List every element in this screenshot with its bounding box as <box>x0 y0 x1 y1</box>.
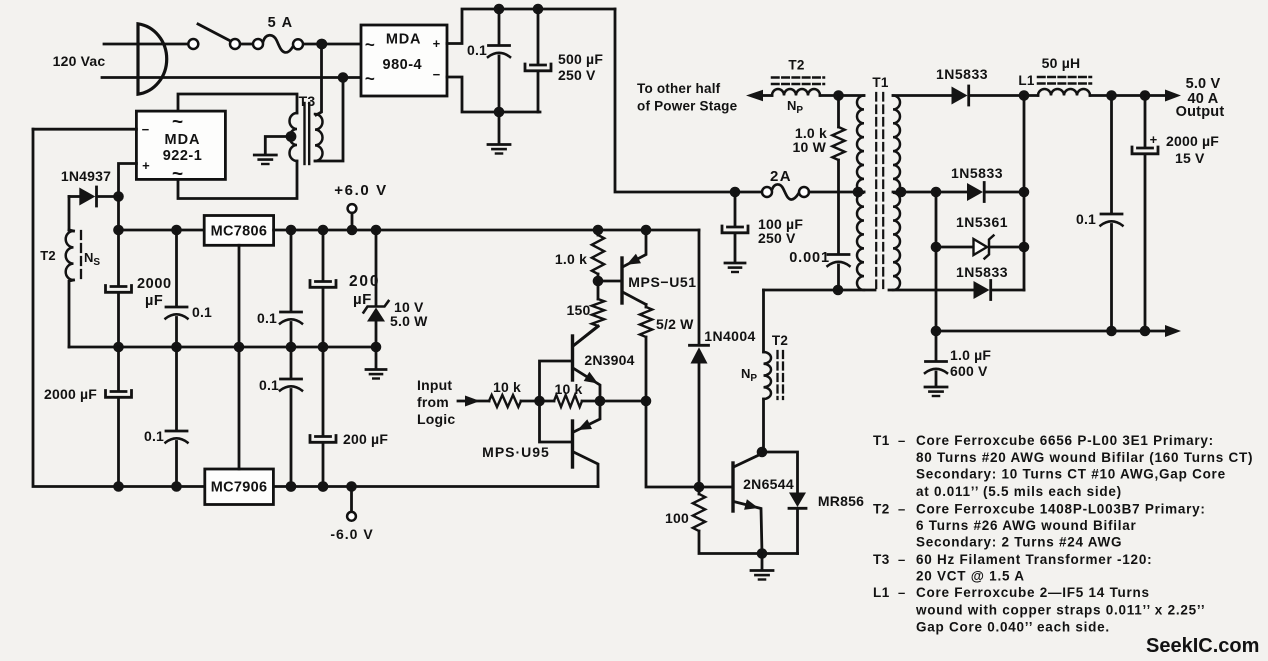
wire <box>761 554 764 570</box>
wire <box>99 195 119 198</box>
svg-text:10 k: 10 k <box>554 381 582 397</box>
junction <box>1140 90 1151 101</box>
node T2 Np bottom junction <box>757 447 768 458</box>
wire <box>290 390 293 487</box>
svg-text:wound with copper straps 0.011: wound with copper straps 0.011’’ x 2.25’… <box>915 603 1205 618</box>
wire plug top <box>104 43 188 46</box>
svg-text:1N4937: 1N4937 <box>61 168 111 184</box>
wire <box>119 229 205 232</box>
wire <box>290 323 293 348</box>
T2 Ns core <box>80 231 82 278</box>
junction <box>318 481 329 492</box>
svg-text:Secondary: 2 Turns #24 AWG: Secondary: 2 Turns #24 AWG <box>916 535 1122 550</box>
wire <box>175 442 178 487</box>
wire Q3 base <box>598 280 622 283</box>
wire <box>809 191 864 194</box>
svg-text:−: − <box>433 67 441 82</box>
wire Q3 collector <box>623 292 647 305</box>
wire Q2 emitter <box>574 401 601 432</box>
rectifier U3 MDA 922-1 <box>136 111 225 179</box>
wire Q2 base <box>540 401 573 442</box>
wire <box>238 245 241 347</box>
svg-text:T1: T1 <box>872 75 888 90</box>
wire Q1 collector <box>573 327 598 347</box>
junction <box>316 39 327 50</box>
wire <box>1110 96 1113 214</box>
regulator U4 MC7806 <box>204 216 273 246</box>
AC plug P1 <box>138 24 167 94</box>
node T3 center tap <box>286 131 297 142</box>
svg-text:µF: µF <box>145 293 163 309</box>
junction <box>346 481 357 492</box>
node Q4 base junction <box>694 482 705 493</box>
wire <box>240 43 253 46</box>
svg-text:MPS−U51: MPS−U51 <box>628 274 696 290</box>
arrow to other half <box>746 90 763 102</box>
svg-text:MPS·U95: MPS·U95 <box>482 444 550 460</box>
wire <box>734 192 737 226</box>
terminal <box>762 187 772 197</box>
node rail1-C1 <box>494 4 505 15</box>
junction <box>171 225 182 236</box>
wire <box>698 230 701 345</box>
svg-text:+: + <box>1150 132 1158 147</box>
junction <box>641 225 652 236</box>
svg-text:5 A: 5 A <box>268 15 294 31</box>
svg-text:~: ~ <box>172 164 183 185</box>
wire T1 bottom to T2 Np <box>762 290 765 352</box>
svg-text:+: + <box>433 36 441 51</box>
terminal <box>347 512 356 521</box>
node AC bottom junction <box>338 72 349 83</box>
wire MDA922 plus <box>119 164 137 197</box>
node output return <box>931 326 942 337</box>
svg-text:To other half: To other half <box>637 81 721 96</box>
wire <box>1144 96 1147 148</box>
svg-text:1.0 µF: 1.0 µF <box>950 347 991 363</box>
wire fuse to MDA980 <box>304 43 361 46</box>
junction <box>113 225 124 236</box>
svg-text:~: ~ <box>172 112 183 133</box>
wire <box>698 487 701 494</box>
svg-text:Input: Input <box>417 377 452 393</box>
node C11 junction <box>730 187 741 198</box>
wire <box>375 322 378 348</box>
svg-text:−: − <box>142 122 150 137</box>
wire T3 right top to AC top <box>316 44 322 115</box>
junction <box>318 481 329 492</box>
wire <box>350 487 353 513</box>
wire <box>69 346 376 349</box>
wire <box>935 372 938 386</box>
wire Q4 base <box>699 486 733 489</box>
svg-text:6 Turns #26 AWG wound Bifilar: 6 Turns #26 AWG wound Bifilar <box>916 518 1137 533</box>
wire <box>375 230 378 305</box>
svg-text:MC7906: MC7906 <box>211 480 268 496</box>
wire <box>1023 96 1026 291</box>
svg-text:NS: NS <box>84 250 100 268</box>
wire <box>645 305 648 308</box>
svg-text:1N4004: 1N4004 <box>704 328 755 344</box>
node L1 input <box>1019 90 1030 101</box>
wire <box>597 281 600 299</box>
wire <box>597 274 600 281</box>
wire <box>290 347 293 379</box>
junction <box>1106 90 1117 101</box>
svg-text:120 Vac: 120 Vac <box>53 53 106 69</box>
wire T1 primary CT stub <box>856 191 864 194</box>
svg-text:from: from <box>417 394 449 410</box>
svg-text:2N6544: 2N6544 <box>743 476 794 492</box>
svg-text:980-4: 980-4 <box>383 57 423 73</box>
svg-text:922-1: 922-1 <box>163 148 203 164</box>
svg-text:Core Ferroxcube 2—IF5 14 Turns: Core Ferroxcube 2—IF5 14 Turns <box>916 585 1150 600</box>
svg-text:T2: T2 <box>772 333 788 348</box>
wire <box>498 56 501 112</box>
wire <box>1144 154 1147 331</box>
wire Q4 collector <box>734 452 763 467</box>
node d-row junction <box>931 187 942 198</box>
svg-text:SeekIC.com: SeekIC.com <box>1146 635 1259 657</box>
svg-text:T2: T2 <box>788 58 804 73</box>
node T1 primary CT <box>853 187 864 198</box>
wire <box>322 347 325 436</box>
wire <box>375 347 378 369</box>
wire <box>762 399 765 452</box>
node T1 sec CT <box>896 187 907 198</box>
svg-text:1N5361: 1N5361 <box>956 214 1008 230</box>
svg-text:200 µF: 200 µF <box>343 431 388 447</box>
wire <box>198 24 230 41</box>
svg-text:100: 100 <box>665 510 689 526</box>
junction <box>593 225 604 236</box>
svg-text:5.0 V: 5.0 V <box>1186 76 1221 92</box>
wire Q3 emitter <box>623 230 647 267</box>
wire <box>837 265 840 290</box>
svg-text:L1: L1 <box>1018 73 1034 88</box>
wire Q1 base <box>540 361 573 401</box>
wire <box>117 293 120 348</box>
svg-text:Core Ferroxcube 1408P-L003B7 P: Core Ferroxcube 1408P-L003B7 Primary: <box>916 502 1206 517</box>
regulator U5 MC7906 <box>205 469 274 505</box>
wire Q2 collector <box>574 452 599 487</box>
junction <box>371 225 382 236</box>
node R4 bottom junction <box>641 396 652 407</box>
wire <box>69 195 79 198</box>
wire T1 sec bottom <box>889 289 974 292</box>
L1 core dash2 <box>1038 82 1091 85</box>
svg-text:MR856: MR856 <box>818 493 864 509</box>
wire T3 left bottom to MDA922 <box>178 161 297 199</box>
wire <box>69 280 74 347</box>
ground G5 <box>925 386 947 389</box>
wire <box>837 96 840 128</box>
svg-text:T1: T1 <box>873 433 890 448</box>
diode D5 1N5833 <box>952 87 968 105</box>
svg-text:0.1: 0.1 <box>144 428 164 444</box>
svg-text:T3: T3 <box>873 552 890 567</box>
svg-text:250 V: 250 V <box>758 230 796 246</box>
svg-text:~: ~ <box>365 69 375 88</box>
T1 primary winding <box>857 96 864 291</box>
svg-text:MDA: MDA <box>386 32 421 48</box>
svg-text:1N5833: 1N5833 <box>956 264 1008 280</box>
svg-text:–: – <box>898 552 905 567</box>
wire <box>273 485 598 488</box>
junction <box>1019 187 1030 198</box>
wire AC bottom line <box>102 76 361 79</box>
ground G2 <box>254 154 276 157</box>
wire <box>117 347 120 391</box>
wire <box>537 71 540 112</box>
wire <box>521 400 554 403</box>
junction <box>286 342 297 353</box>
node gnd junction <box>494 107 505 118</box>
wire Q1 emitter <box>573 368 600 401</box>
wire <box>698 364 701 488</box>
wire <box>762 452 798 493</box>
wire to Q4 base <box>646 401 699 487</box>
wire left rail down to MC7906 row <box>33 129 204 486</box>
junction <box>286 481 297 492</box>
junction <box>347 225 358 236</box>
svg-text:+: + <box>142 158 150 173</box>
wire R5 to Q1 collector <box>573 326 598 346</box>
wire <box>175 347 178 431</box>
wire <box>762 94 772 97</box>
resistor R2 10k <box>554 395 582 407</box>
junction <box>318 342 329 353</box>
svg-text:-6.0 V: -6.0 V <box>330 526 373 542</box>
terminal <box>348 204 357 213</box>
wire <box>68 197 71 231</box>
T2 core dash1 <box>776 351 778 399</box>
wire <box>985 191 1024 194</box>
T1 core dash2 <box>882 93 884 290</box>
svg-text:0.001: 0.001 <box>789 250 830 266</box>
svg-text:MC7806: MC7806 <box>211 224 268 240</box>
wire T1 sec CT row <box>893 191 967 194</box>
wire <box>322 443 325 487</box>
svg-text:~: ~ <box>365 35 375 54</box>
svg-text:20 VCT @ 1.5 A: 20 VCT @ 1.5 A <box>916 569 1025 584</box>
svg-text:Gap Core 0.040’’ each side.: Gap Core 0.040’’ each side. <box>916 620 1110 635</box>
svg-text:Secondary: 10 Turns CT #10 AWG: Secondary: 10 Turns CT #10 AWG,Gap Core <box>916 467 1226 482</box>
svg-text:of Power Stage: of Power Stage <box>637 99 738 114</box>
junction <box>286 225 297 236</box>
svg-text:2N3904: 2N3904 <box>584 352 634 368</box>
wire <box>351 213 354 230</box>
node rail1-C2 <box>533 4 544 15</box>
T3 core line1 <box>303 103 305 164</box>
wire <box>699 531 798 554</box>
wire <box>645 337 648 401</box>
resistor R1 10k <box>489 395 521 407</box>
wire <box>796 508 799 553</box>
wire <box>970 94 1038 97</box>
L1 core dash1 <box>1038 76 1091 79</box>
terminal <box>230 39 240 49</box>
T3 primary-left winding <box>290 113 297 161</box>
svg-text:T2: T2 <box>40 248 56 263</box>
svg-text:60 Hz Filament Transformer -12: 60 Hz Filament Transformer -120: <box>916 552 1152 567</box>
T3 core line2 <box>308 103 310 164</box>
wire <box>837 160 840 254</box>
wire +6V rail right <box>274 229 699 232</box>
svg-text:600 V: 600 V <box>950 363 988 379</box>
junction <box>113 342 124 353</box>
wire <box>990 246 1024 249</box>
svg-text:T2: T2 <box>873 502 890 517</box>
wire <box>322 230 325 281</box>
wire <box>69 230 74 231</box>
svg-text:Core Ferroxcube 6656 P-L00 3E1: Core Ferroxcube 6656 P-L00 3E1 Primary: <box>916 433 1214 448</box>
terminal <box>799 187 809 197</box>
wire <box>498 112 501 144</box>
svg-text:1N5833: 1N5833 <box>936 66 988 82</box>
wire input <box>458 400 489 403</box>
junction <box>1140 326 1151 337</box>
wire <box>820 94 864 97</box>
svg-text:Logic: Logic <box>417 411 455 427</box>
arrow input <box>465 396 480 407</box>
wire T3 tap to gnd <box>265 137 291 155</box>
svg-text:L1: L1 <box>873 585 890 600</box>
wire <box>537 9 540 64</box>
wire - rail bottom <box>447 77 540 112</box>
svg-text:50 µH: 50 µH <box>1042 55 1081 71</box>
svg-text:80 Turns #20 AWG wound Bifilar: 80 Turns #20 AWG wound Bifilar (160 Turn… <box>916 450 1253 465</box>
junction <box>286 481 297 492</box>
arrow output <box>1165 90 1181 102</box>
svg-text:0.1: 0.1 <box>192 304 212 320</box>
T2 top core dash2 <box>772 83 824 86</box>
svg-text:–: – <box>898 585 905 600</box>
wire MDA922 minus to left rail <box>33 128 136 131</box>
wire <box>498 9 501 45</box>
svg-text:5.0 W: 5.0 W <box>390 313 428 329</box>
wire <box>1110 225 1113 332</box>
junction <box>318 225 329 236</box>
node T1 primary top <box>833 90 844 101</box>
svg-text:2000 µF: 2000 µF <box>1166 133 1219 149</box>
wire <box>992 289 1025 292</box>
node R3-R5 junction <box>593 276 604 287</box>
svg-text:10 k: 10 k <box>493 379 521 395</box>
wire T1 primary bottom <box>764 289 876 292</box>
terminal <box>253 39 263 49</box>
wire + rail top <box>447 9 615 44</box>
junction <box>113 481 124 492</box>
wire Q4 emitter <box>734 502 763 554</box>
wire <box>734 233 737 262</box>
junction <box>171 481 182 492</box>
svg-text:at 0.011’’ (5.5 mils each side: at 0.011’’ (5.5 mils each side) <box>916 484 1122 499</box>
arrow output return <box>1165 325 1181 337</box>
svg-text:0.1: 0.1 <box>259 377 279 393</box>
svg-text:15 V: 15 V <box>1175 150 1205 166</box>
wire <box>936 246 974 249</box>
wire <box>117 398 120 487</box>
svg-text:0.1: 0.1 <box>257 310 277 326</box>
bridge rectifier U2 MDA 980-4 <box>361 25 447 96</box>
wire <box>290 230 293 312</box>
svg-text:5/2 W: 5/2 W <box>656 316 694 332</box>
svg-text:1N5833: 1N5833 <box>951 165 1003 181</box>
wire <box>322 288 325 348</box>
wire <box>175 318 178 348</box>
svg-text:1.0 k: 1.0 k <box>555 251 587 267</box>
T2 top core dash1 <box>772 76 824 79</box>
junction <box>371 342 382 353</box>
svg-text:150: 150 <box>567 302 591 318</box>
junction <box>234 342 245 353</box>
svg-text:2A: 2A <box>770 168 792 185</box>
svg-text:2000: 2000 <box>137 276 172 292</box>
svg-text:0.1: 0.1 <box>1076 211 1096 227</box>
wire <box>936 330 1166 333</box>
svg-text:–: – <box>898 433 905 448</box>
wire T1 sec top <box>893 94 952 97</box>
node base junction <box>534 396 545 407</box>
svg-text:–: – <box>898 502 905 517</box>
svg-text:10 W: 10 W <box>793 139 827 155</box>
wire rail1 down to 2A row <box>615 9 735 192</box>
wire MDA922 top to T3 <box>178 94 297 113</box>
svg-text:NP: NP <box>787 98 803 116</box>
wire <box>935 192 938 331</box>
terminal <box>293 39 303 49</box>
T1 secondary winding <box>893 96 900 291</box>
capacitor C3 2000uF <box>111 285 126 288</box>
junction <box>1019 242 1030 253</box>
svg-text:Output: Output <box>1176 104 1225 120</box>
wire <box>597 230 600 235</box>
ground G4 <box>725 262 745 265</box>
svg-text:2000 µF: 2000 µF <box>44 386 97 402</box>
svg-text:+6.0 V: +6.0 V <box>334 182 387 199</box>
wire <box>238 347 241 469</box>
wire output top <box>1090 94 1166 97</box>
node emitter junction <box>595 396 606 407</box>
node emitter-gnd junction <box>757 548 768 559</box>
svg-text:250 V: 250 V <box>558 67 596 83</box>
wire <box>935 331 938 361</box>
wire <box>175 230 178 307</box>
capacitor C12 0.001 <box>828 253 849 256</box>
wire <box>735 191 762 194</box>
svg-text:500 µF: 500 µF <box>558 51 603 67</box>
node T1 primary bottom <box>833 285 844 296</box>
wire <box>582 400 646 403</box>
wire T3 right bottom loop <box>315 78 343 162</box>
terminal <box>188 39 198 49</box>
svg-text:0.1: 0.1 <box>467 42 487 58</box>
svg-text:MDA: MDA <box>164 132 200 148</box>
T2 core dash2 <box>782 351 784 399</box>
svg-text:T3: T3 <box>299 93 316 109</box>
svg-text:NP: NP <box>741 366 757 384</box>
T3 secondary-right winding <box>315 114 323 161</box>
junction <box>1106 326 1117 337</box>
diode D6 1N5833 <box>967 183 983 201</box>
T1 core dash1 <box>875 93 877 290</box>
node top AC junction <box>317 39 328 50</box>
node D1 cathode <box>113 191 124 202</box>
junction <box>931 242 942 253</box>
junction <box>171 342 182 353</box>
wire <box>117 197 120 286</box>
